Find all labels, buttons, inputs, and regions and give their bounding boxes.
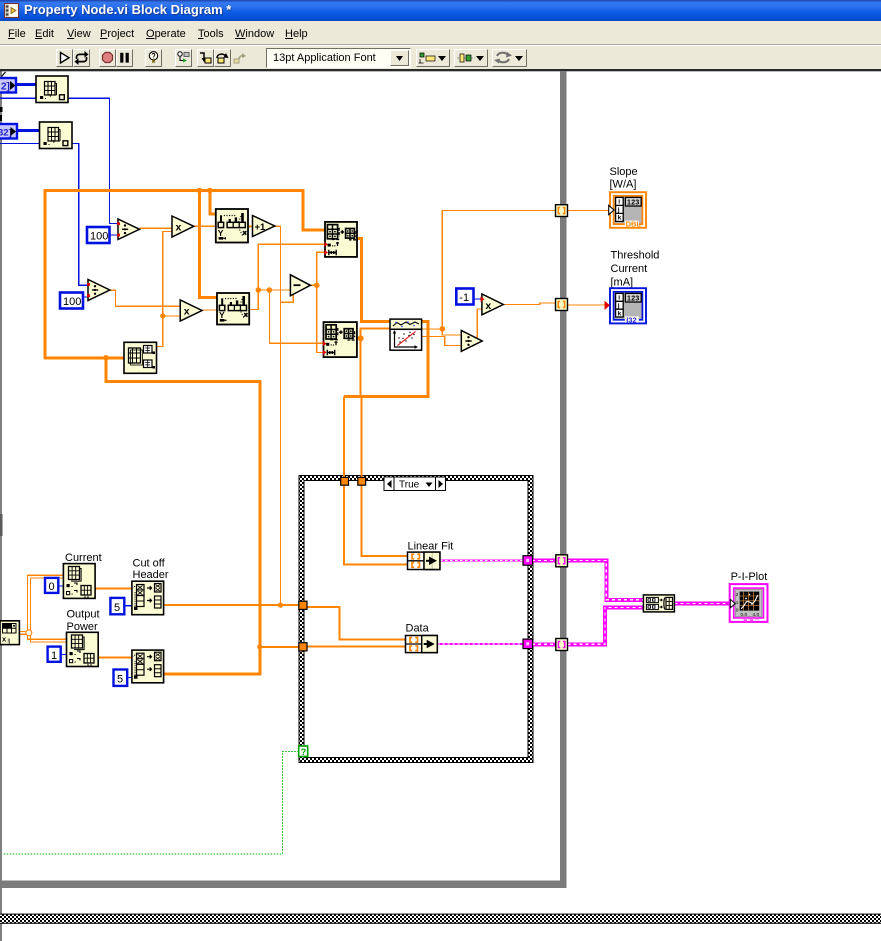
case tunnel pink out top [523, 556, 533, 566]
svg-text:j: j [617, 207, 620, 214]
wire: constant 0 to Current index [58, 585, 63, 587]
Threshold Current indicator terminal [605, 288, 647, 324]
wire: case inside tunnel T5 to Data bundle [307, 607, 406, 640]
svg-text:x: x [184, 306, 190, 318]
svg-text:Y: Y [218, 228, 224, 238]
wire: branch down to subset U11 length [317, 285, 324, 352]
wire: Cut off Header out to tunnel T5 [164, 604, 299, 606]
svg-text:Data: Data [406, 623, 430, 635]
wire: slope tunnel to Slope indicator [568, 210, 610, 212]
Index Array node Output Power [67, 632, 99, 666]
Array Subset node U10 [324, 222, 357, 257]
svg-text:32]: 32] [0, 128, 12, 139]
wire: slope branch to divide U12 [442, 329, 461, 335]
svg-text:0: 0 [49, 581, 55, 593]
svg-text:0: 0 [736, 608, 739, 614]
wire: array max to multiply inputs [157, 232, 173, 347]
wire: increment U8 output down to tunnel T5 [275, 226, 300, 605]
wire: best fit array wrap to case tunnels [344, 321, 428, 396]
wire: main array down to case Data [106, 358, 260, 674]
case structure border (True case) [299, 476, 533, 763]
splitter tunnel T7 (pink top) [556, 555, 568, 567]
wire: case inside T3 to Linear Fit bundle lower [344, 485, 408, 564]
svg-text:Header: Header [133, 569, 169, 581]
increment U8 [253, 216, 275, 237]
svg-text:[W/A]: [W/A] [610, 179, 637, 191]
svg-text:i: i [618, 199, 620, 206]
svg-text:123: 123 [627, 199, 640, 206]
wire: constant 100 to divide U2 [110, 234, 119, 236]
wire: array subset U11 out to Linear Fit VI Y input [357, 328, 390, 338]
svg-text:Current: Current [65, 552, 102, 564]
splitter tunnel T1 (Slope) [556, 205, 568, 217]
wire: tunnel T2 to Threshold Current indicator [568, 304, 606, 306]
wire: U0 element out to divide U2 [68, 98, 118, 223]
svg-text:I32: I32 [626, 315, 636, 324]
constant 0 [45, 578, 58, 593]
case tunnel T3 (orange, top border) [341, 477, 349, 485]
wire: subset U11 out down branch [360, 338, 362, 396]
stray cursor caret mark top-left [2, 72, 6, 77]
svg-text:x: x [485, 300, 491, 312]
wire: branch into Data tunnel T6 [260, 646, 299, 648]
divide U12 [461, 331, 482, 352]
wire: branch to subtract U9 input [258, 289, 290, 291]
wire: index input line U1 [0, 143, 40, 145]
svg-text:?: ? [301, 747, 307, 757]
multiply U13 [481, 294, 504, 315]
wire: multiply U13 out to Threshold tunnel T2 [503, 303, 555, 305]
Bundle node Linear Fit [408, 552, 440, 569]
wire: threshold U4 out to increment U8 [248, 225, 253, 227]
multiply U6 [180, 300, 202, 321]
wire: index input line U0 [0, 97, 36, 99]
Index Array node U1 [40, 122, 73, 149]
svg-text:Slope: Slope [610, 166, 638, 178]
case selector label "True" [384, 477, 446, 491]
wire: I32 array terminal to Index Array U0 (thick) [16, 83, 36, 86]
wire: case tunnel to splitter tunnel top [532, 559, 556, 563]
svg-text:-1: -1 [459, 292, 469, 304]
wire: branch to multiply U6 lower input [163, 315, 180, 317]
Linear Fit VI node [390, 319, 422, 350]
case tunnel pink out bottom [523, 639, 533, 649]
svg-text:j: j [617, 303, 620, 310]
boolean wire (dotted green) to case selector [3, 752, 299, 855]
wire: case inside tunnel T6 to Data bundle [307, 645, 406, 647]
svg-text:100: 100 [90, 231, 108, 243]
2D array double wire from x_ij node [19, 575, 66, 642]
svg-text:True: True [399, 480, 420, 491]
Array Subset node Cut off Header 2 [132, 650, 164, 683]
wire: subtract U9 output net [310, 252, 325, 285]
svg-text:DBL: DBL [626, 220, 642, 229]
wire: build array out to P-I-Plot (thick hatched) [674, 602, 730, 606]
svg-text:2]: 2] [1, 82, 10, 93]
wire: down into case tunnel T4 [360, 396, 362, 477]
constant 100 [87, 227, 110, 243]
svg-text:x: x [176, 222, 182, 234]
svg-text:ij: ij [8, 639, 11, 645]
wire: cluster array to build array input 1 (thick hatched) [568, 561, 644, 600]
case tunnel T4 (orange, top border) [358, 477, 366, 485]
wire: bus drop to threshold node U4 [210, 191, 216, 215]
divide U7 [87, 280, 110, 301]
wire: Linear Fit bundle out to case tunnel [440, 560, 524, 562]
svg-text:P-I-Plot: P-I-Plot [731, 571, 768, 583]
wire: multiply U3 out to threshold U4 [194, 225, 217, 227]
Build Array node [643, 595, 674, 612]
wire: main orange bus top [45, 191, 325, 360]
svg-text:i: i [618, 295, 620, 302]
splitter bar vertical [560, 71, 567, 888]
svg-text:Threshold: Threshold [611, 250, 660, 262]
wire: branch down to array subset U11 index [269, 290, 323, 343]
sequence structure border band (bottom checkered) [0, 914, 881, 924]
wire: cluster array to build array input 2 (thick hatched) [568, 607, 644, 644]
Threshold 1D Array node U5 [217, 293, 249, 325]
wire junction dots [103, 188, 445, 650]
svg-text:Power: Power [67, 621, 99, 633]
wire: Linear Fit slope output net [422, 211, 556, 329]
terminal I32 array control (cut) second [0, 115, 17, 139]
wire: multiply U6 out to threshold U5 [200, 309, 217, 311]
constant 5 [110, 598, 124, 614]
Threshold 1D Array node U4 [216, 209, 248, 243]
pane top edge black line [0, 70, 881, 71]
subtract U9 [290, 275, 310, 296]
svg-text:123: 123 [627, 295, 640, 302]
left edge darker segment [0, 514, 3, 536]
wire: U1 element out to divide U7 [66, 144, 88, 286]
svg-text:1: 1 [51, 650, 57, 662]
wire: I32 array terminal 2 to Index Array U1 (thick) [17, 129, 40, 132]
wire: case tunnel to splitter tunnel bottom [532, 642, 556, 646]
svg-text:Current: Current [611, 263, 648, 275]
Array Max Min node [124, 342, 157, 373]
multiply U3 [172, 216, 194, 237]
svg-text:k: k [618, 215, 622, 222]
wire: constant 1 to Output Power index [61, 653, 67, 655]
constant -1 [456, 289, 473, 305]
svg-text:5: 5 [117, 674, 123, 686]
svg-text:k: k [618, 310, 622, 317]
Slope indicator terminal [609, 192, 646, 228]
splitter bar horizontal [0, 881, 567, 889]
2D array node x_ij (cut at left edge) [0, 621, 19, 645]
svg-text:[mA]: [mA] [611, 277, 634, 289]
wire: down into case tunnel T3 [343, 396, 345, 477]
Array Subset node U11 [323, 322, 357, 357]
wire: constant -1 to multiply U13 [474, 298, 482, 300]
svg-text:Linear Fit: Linear Fit [408, 541, 454, 553]
wire: divide U7 output to multiply U6 [110, 290, 180, 306]
wire: constant 5 to Cut off subset [124, 605, 132, 607]
wire: constant 5 b to subset 2 [127, 677, 132, 679]
svg-text:5: 5 [114, 602, 120, 614]
divide U2 [117, 219, 140, 240]
constant 1 [48, 647, 61, 662]
Array Subset node Cut off Header 1 [132, 581, 164, 615]
wire: array subset U10 out to Linear Fit VI X input [357, 238, 390, 321]
wire: constant 100 b to divide U7 [83, 296, 88, 298]
wire: intercept to divide U12 lower [422, 337, 462, 346]
P-I-Plot XY graph terminal [730, 584, 768, 622]
wire: Data bundle out to case tunnel [437, 643, 523, 645]
constant 100 b [60, 293, 83, 309]
wire: bus to Array Max Min input [44, 356, 124, 359]
Index Array node U0 [36, 76, 68, 103]
pink cluster wires thin (dashed) [437, 561, 730, 645]
case tunnel T6 (orange, left border) [299, 643, 307, 651]
wire: divide U12 out up to multiply U13 [477, 309, 482, 341]
terminal I32 array control (cut) top [0, 78, 16, 93]
wire: Current index out to Cut off Header subset [95, 588, 132, 590]
2D wire fork circle [26, 630, 32, 636]
splitter tunnel T8 (pink bottom) [556, 639, 568, 651]
svg-text:Cut off: Cut off [133, 558, 166, 570]
svg-text:Y: Y [219, 310, 225, 320]
case tunnel T5 (orange, left border) [299, 601, 307, 609]
constant 5 b [114, 670, 128, 686]
svg-text:100: 100 [63, 296, 81, 308]
svg-text:Output: Output [67, 609, 100, 621]
svg-text:1: 1 [736, 600, 739, 606]
wire: threshold U5 output net [249, 244, 325, 309]
wire: case inside T4 to Linear Fit bundle upper [361, 485, 407, 556]
wire: branch into subtract U9 lower [281, 295, 294, 303]
Index Array node Current [63, 564, 95, 599]
svg-text:2: 2 [736, 592, 739, 598]
case selector terminal ? [299, 746, 308, 757]
svg-text:+1: +1 [255, 222, 267, 233]
wire: bus drop to threshold node U5 [200, 191, 218, 298]
pane left edge line [0, 71, 2, 941]
splitter tunnel T2 (Threshold) [556, 299, 568, 311]
Bundle node Data [406, 636, 438, 653]
wire: divide U2 output to multiply U3 [140, 227, 173, 229]
wire: Output Power index out to subset [98, 656, 132, 658]
